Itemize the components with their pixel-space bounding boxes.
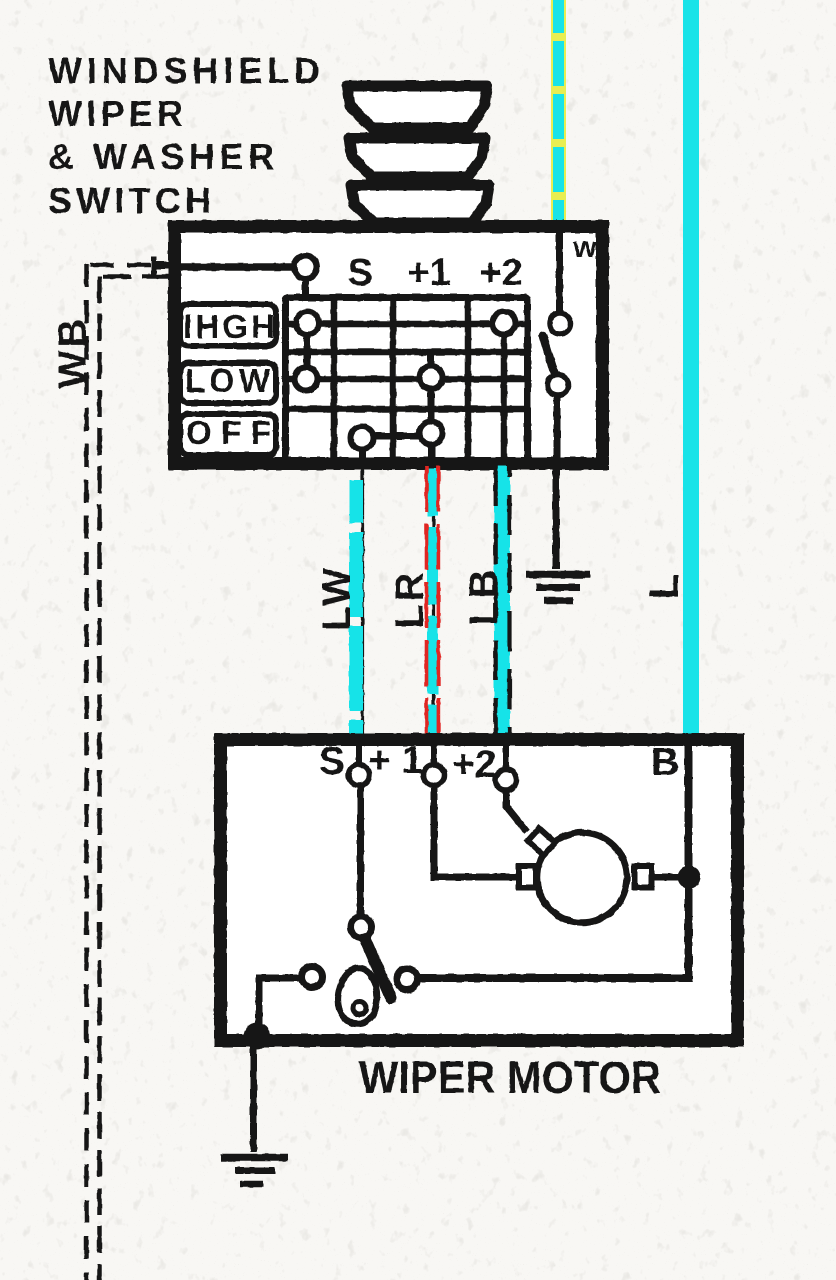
bar OFF S-+1 — [362, 433, 431, 440]
stub S top circle to grid — [302, 276, 309, 300]
ground below motor — [221, 1047, 288, 1184]
wire +2 switch to motor — [503, 470, 506, 769]
svg-text:B: B — [651, 741, 679, 784]
internal wire from +2 — [506, 791, 527, 832]
motor terminal stubs — [356, 746, 362, 764]
svg-text:WIPER MOTOR: WIPER MOTOR — [359, 1052, 661, 1103]
svg-text:& WASHER: & WASHER — [48, 136, 274, 177]
LB highlight (cyan with black dashes) — [496, 466, 510, 747]
park idle contact — [302, 967, 323, 988]
park switch lever — [364, 936, 391, 998]
wire right brush to B — [652, 874, 689, 881]
svg-text:LR: LR — [388, 569, 432, 628]
contact circle +1 OFF — [420, 422, 443, 445]
motor terminal +1 — [424, 765, 445, 786]
internal wire B vertical — [415, 746, 689, 978]
w wire in switch — [556, 233, 563, 312]
LR highlight (cyan with red dashed edges) — [427, 466, 439, 747]
switch box — [175, 227, 603, 464]
contact circle A-LOW — [295, 368, 318, 391]
contact circle +2 IHGH — [493, 312, 516, 335]
junction dot B — [678, 866, 701, 889]
w bottom contact — [548, 375, 569, 396]
wire idle contact to ground — [259, 978, 300, 1035]
svg-text:LB: LB — [462, 566, 506, 625]
w top contact — [550, 313, 571, 334]
grid vertical +2 column — [501, 312, 508, 460]
wire W highlight (yellow, from top to switch) — [551, 0, 566, 233]
w switch lever — [543, 336, 554, 372]
svg-text:LOW: LOW — [185, 362, 271, 399]
grid vertical line a — [331, 298, 338, 460]
cell IHGH — [180, 304, 276, 346]
svg-text:WIPER: WIPER — [48, 93, 183, 134]
svg-text:WB: WB — [51, 316, 95, 389]
switch grid outline — [286, 298, 528, 461]
wire L highlight (solid cyan, from top to motor B) — [683, 0, 699, 746]
svg-text:OFF: OFF — [186, 414, 271, 451]
contact circle A-IHGH — [296, 312, 319, 335]
stub below S OFF — [359, 447, 366, 470]
grid horizontal line row IHGH — [286, 321, 527, 328]
svg-text:w: w — [572, 231, 597, 264]
svg-text:L: L — [640, 571, 687, 600]
junction dot ground — [244, 1023, 271, 1050]
w wire down — [554, 396, 561, 470]
wire +1 switch to motor — [432, 470, 435, 764]
internal wire from S — [357, 786, 364, 916]
wire S switch to motor — [361, 470, 364, 764]
WB dashed wire 1 — [87, 264, 166, 1280]
contact circle +1 LOW — [420, 366, 443, 389]
park contact lever end — [397, 969, 418, 990]
left brush — [519, 866, 536, 888]
svg-text:IHGH: IHGH — [183, 308, 275, 345]
motor armature circle — [537, 833, 627, 923]
cam — [338, 968, 377, 1024]
svg-text:+2: +2 — [452, 743, 496, 786]
svg-text:WINDSHIELD: WINDSHIELD — [48, 50, 320, 91]
bar LOW-OFF +1 — [428, 377, 435, 434]
contact circle S OFF — [351, 427, 374, 450]
svg-text:+1: +1 — [407, 252, 450, 294]
top-left brush — [528, 828, 555, 855]
svg-text:+ 1: + 1 — [368, 739, 423, 782]
grid vertical line c — [465, 298, 472, 460]
grid vertical line b — [390, 298, 397, 460]
grid horizontal line row LOW — [286, 376, 527, 383]
motor box — [221, 740, 738, 1041]
grid horizontal line sep1 — [286, 349, 527, 356]
contact circle S common — [294, 256, 317, 279]
wire to S common — [176, 263, 300, 271]
ground below switch: stem — [526, 470, 590, 601]
cam pivot ring — [353, 1002, 366, 1015]
cell OFF — [180, 414, 276, 455]
title text — [48, 50, 320, 221]
svg-text:S: S — [319, 740, 345, 783]
internal wire from +1 — [434, 786, 517, 877]
cell LOW — [180, 363, 276, 403]
stub below +1 OFF — [429, 443, 436, 470]
motor terminal S — [349, 765, 370, 786]
wire nub left of box — [155, 262, 177, 270]
bar IHGH-LOW contacts — [304, 323, 311, 379]
park contact top — [351, 917, 372, 938]
right brush — [635, 866, 652, 888]
stub +1 LOW up — [428, 354, 435, 377]
svg-text:+2: +2 — [479, 252, 522, 294]
WB dashed wire 2 — [100, 276, 177, 1280]
motor terminal +2 — [496, 770, 517, 791]
svg-text:S: S — [347, 252, 372, 294]
LW highlight (cyan dashes) — [349, 480, 363, 742]
svg-text:LW: LW — [315, 565, 359, 631]
grid horizontal line sep2 — [286, 406, 527, 413]
connector stack on switch — [347, 86, 489, 223]
